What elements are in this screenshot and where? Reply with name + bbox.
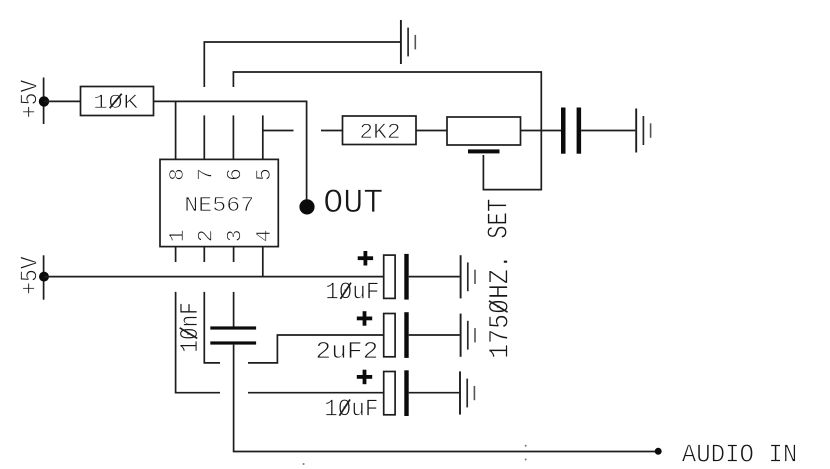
wire pin2 down and right to 2uF2 (204, 292, 220, 363)
node +5V top: vertical tick (43, 78, 45, 125)
wire pin1 upper stub (175, 247, 177, 262)
wire to ground (409, 334, 460, 336)
stray speck 2 (525, 445, 527, 447)
plus sign (358, 256, 373, 260)
wire pin2 upper stub (203, 247, 205, 262)
node +5V lower: vertical tick (43, 255, 45, 299)
pin number 5 (253, 168, 277, 181)
ground G2 (right of timing cap) (636, 109, 650, 153)
stray speck 3 (525, 459, 527, 461)
svg-text:3: 3 (223, 229, 247, 242)
node dot AUDIO IN (655, 448, 662, 455)
resistor R2 2K2 (343, 116, 417, 145)
wire pin3 upper stub (233, 247, 235, 262)
wire timing cap to ground (581, 130, 635, 132)
slashed zero of 10K (110, 94, 122, 109)
svg-text:7: 7 (195, 168, 219, 181)
op IC U1 NE567 body (160, 159, 278, 246)
resistor R1 10K (81, 87, 154, 116)
svg-text:5: 5 (253, 168, 277, 181)
wire to ground (409, 276, 460, 278)
svg-text:SET: SET (482, 199, 515, 239)
capacitor C1 (timing) plates (561, 108, 581, 154)
wire 10nF bottom plate to AUDIO IN (234, 345, 655, 452)
label 10nF (175, 302, 205, 353)
wire +5V rail to top 10uF cap (44, 276, 384, 278)
negative plate (bar) (404, 312, 408, 358)
wire pin5 to 2K2 (gap at OUT wire) (263, 130, 294, 132)
pin number 6 (223, 168, 247, 181)
svg-text:6: 6 (223, 168, 247, 181)
svg-text:8: 8 (166, 168, 190, 181)
svg-text:10uF: 10uF (324, 396, 378, 423)
power +5V label (lower left) (18, 256, 45, 295)
junction dot +5V lower (39, 272, 49, 282)
ground G4 (461, 314, 475, 357)
pin number 8 (166, 168, 190, 181)
svg-text:OUT: OUT (323, 185, 383, 223)
wire to ground (409, 392, 460, 394)
pin number 3 (223, 229, 247, 242)
wire pin6 lower stub (232, 115, 234, 159)
capacitor C5 10uF (bottom) (324, 370, 459, 424)
wire pin8 to rail (175, 101, 177, 159)
slashed zero of 10nF (180, 328, 198, 339)
pin number 7 (195, 168, 219, 181)
label 10uF (325, 280, 379, 307)
svg-text:10nF: 10nF (175, 302, 205, 353)
svg-text:2: 2 (195, 229, 219, 242)
wire pin3 to 10nF top plate (233, 292, 235, 327)
plus sign (357, 316, 372, 320)
capacitor C3 10uF (top) (325, 251, 460, 307)
label SET (482, 199, 515, 239)
wire 2uF2 left lead (after gap) (248, 335, 384, 363)
positive plate (hollow) (384, 314, 395, 357)
wire pin4 to +5V rail (262, 247, 264, 277)
svg-text:10uF: 10uF (325, 280, 379, 307)
wire +5V dot to 10K (44, 100, 81, 102)
potentiometer SET body (447, 117, 521, 153)
ground G3 (461, 255, 475, 298)
node OUT dot (299, 199, 314, 214)
wire pin7 up to top ground run (204, 42, 400, 87)
negative plate (bar) (404, 370, 408, 416)
negative plate (bar) (404, 254, 408, 300)
junction dot +5V top (39, 96, 49, 106)
svg-text:4: 4 (253, 229, 277, 242)
svg-text:2uF2: 2uF2 (315, 339, 378, 366)
positive plate (hollow) (384, 255, 395, 298)
svg-text:2K2: 2K2 (359, 120, 400, 145)
label 10uF (324, 396, 378, 423)
stray speck 1 (303, 463, 305, 465)
wire bottom 10uF left lead (after gap) (248, 392, 384, 394)
wire pin1 down and right to bottom 10uF (176, 292, 220, 393)
capacitor C4 2uF2 (315, 311, 459, 366)
potentiometer wiper bar (468, 149, 500, 153)
slashed zero of 1750HZ. (489, 301, 508, 312)
wire pin5 stub (262, 115, 264, 159)
label 1750HZ. (485, 254, 516, 359)
pin number 2 (195, 229, 219, 242)
wire 2K2 to pot (416, 130, 447, 132)
svg-text:AUDIO IN: AUDIO IN (682, 440, 798, 469)
wire pin6 up over to pot wiper (233, 72, 541, 190)
pin number 1 (166, 229, 190, 242)
positive plate (hollow) (384, 372, 395, 415)
ground G5 (460, 371, 474, 414)
wire pot to timing cap (521, 130, 562, 132)
ground G1 (top) (401, 20, 415, 64)
svg-text:1: 1 (166, 229, 190, 242)
plus sign (357, 375, 372, 379)
svg-text:10K: 10K (93, 92, 139, 115)
power +5V label (top left) (18, 79, 45, 118)
capacitor C2 10nF plates (210, 326, 256, 344)
svg-text:1750HZ.: 1750HZ. (485, 254, 516, 359)
pin number 4 (253, 229, 277, 242)
wire 2K2 left lead (321, 130, 343, 132)
wire pin7 lower stub (203, 115, 205, 159)
wire 10K to OUT corner (154, 101, 307, 201)
svg-text:NE567: NE567 (184, 194, 254, 218)
